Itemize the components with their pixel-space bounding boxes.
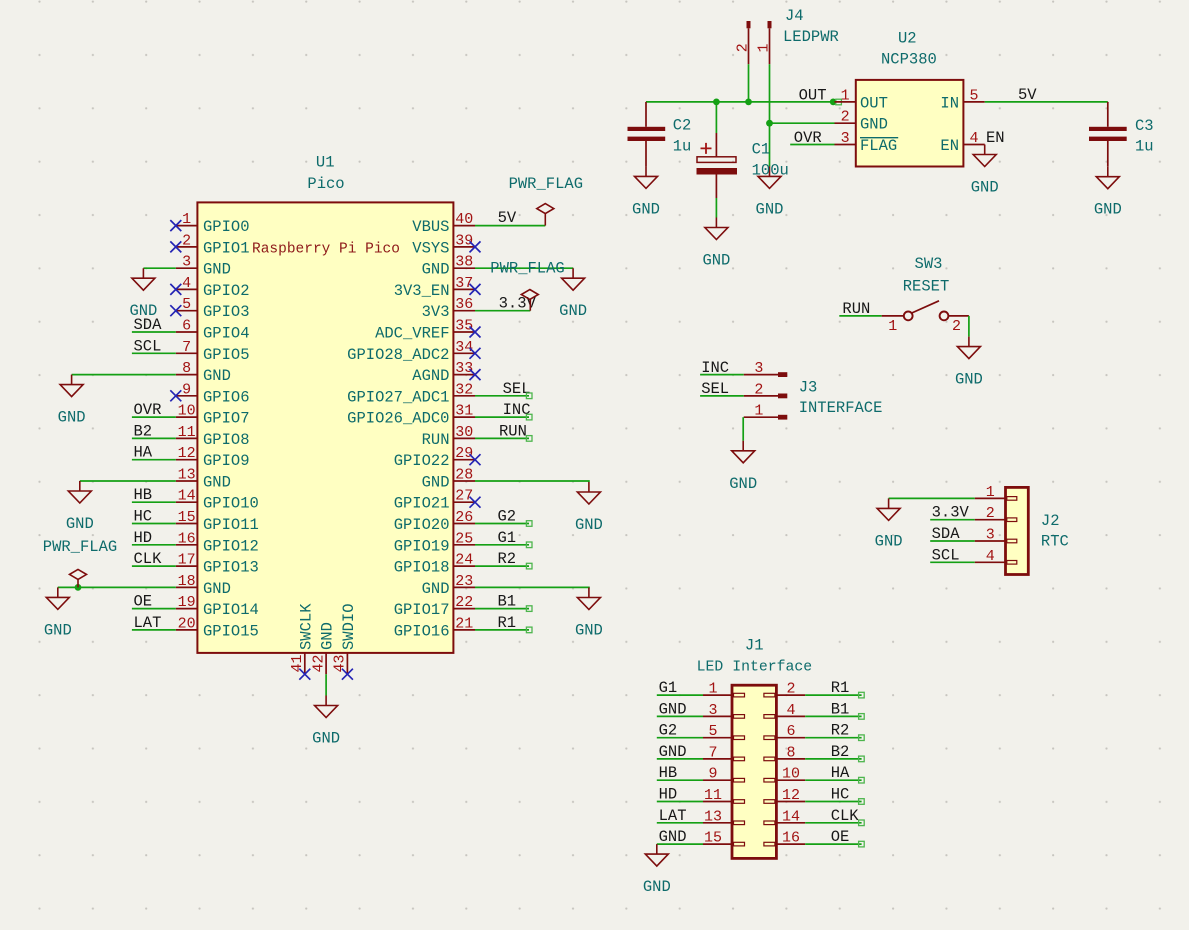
svg-text:HB: HB — [134, 486, 153, 504]
svg-text:GND: GND — [203, 580, 231, 598]
dangling end B2 — [859, 756, 865, 762]
wire U1 pin 13 to ground — [80, 480, 176, 482]
wire net LAT to U1 pin 20 — [132, 629, 176, 631]
svg-text:5V: 5V — [1018, 86, 1037, 104]
ground at J2 pin 1 — [875, 498, 903, 550]
wire U1 pin 38 GND to ground — [475, 267, 573, 269]
wire net INC to J3 pin 3 — [700, 374, 744, 376]
svg-text:35: 35 — [455, 318, 473, 335]
U1 pin 15 (GPIO11) — [176, 509, 259, 534]
svg-text:CLK: CLK — [831, 807, 860, 825]
U1 pin 10 (GPIO7) — [176, 403, 250, 428]
svg-text:5: 5 — [182, 296, 191, 313]
svg-text:3: 3 — [841, 130, 850, 147]
svg-text:GND: GND — [319, 622, 337, 650]
svg-text:HA: HA — [831, 764, 850, 782]
svg-text:2: 2 — [841, 109, 850, 126]
svg-text:15: 15 — [704, 830, 722, 847]
U1 pin 38 (GND) — [422, 254, 475, 279]
wire net GND to J1 pin 7 — [657, 758, 703, 760]
svg-text:38: 38 — [455, 254, 473, 271]
svg-text:LEDPWR: LEDPWR — [783, 28, 839, 46]
U1 pin 32 (GPIO27_ADC1) — [347, 381, 475, 406]
svg-text:GND: GND — [203, 261, 231, 279]
svg-text:1: 1 — [708, 681, 717, 698]
U1 pin 26 (GPIO20) — [394, 509, 475, 534]
U1 pin 11 (GPIO8) — [176, 424, 250, 449]
svg-text:G2: G2 — [659, 722, 678, 740]
wire net HC from J1 pin 12 — [805, 801, 861, 803]
svg-text:GPIO11: GPIO11 — [203, 516, 259, 534]
svg-text:GND: GND — [422, 474, 450, 492]
svg-text:10: 10 — [178, 403, 196, 420]
svg-text:EN: EN — [940, 137, 959, 155]
svg-text:15: 15 — [178, 509, 196, 526]
U2 pin 2 (GND) — [835, 109, 888, 134]
svg-text:GND: GND — [643, 878, 671, 896]
wire net G1 from U1 pin 25 — [475, 544, 529, 546]
U1 pin 40 (VBUS) — [412, 211, 475, 236]
ground at SW3 pin 2 — [955, 337, 983, 389]
ground at U1 pin 18 — [44, 587, 72, 639]
svg-text:VBUS: VBUS — [412, 218, 449, 236]
capacitor C2 — [628, 102, 692, 166]
U1 pin 6 (GPIO4) — [176, 318, 250, 343]
U1 pin 7 (GPIO5) — [176, 339, 250, 364]
wire net B1 from J1 pin 4 — [805, 715, 861, 717]
power flag on U1 pin 18 net — [43, 538, 117, 587]
J1 pin 7 — [703, 744, 745, 761]
J1 pin 16 — [764, 830, 805, 847]
svg-text:IN: IN — [940, 94, 959, 112]
U2 pin 3 (FLAG) — [835, 130, 899, 155]
svg-text:29: 29 — [455, 445, 473, 462]
svg-text:4: 4 — [969, 130, 978, 147]
svg-text:GPIO12: GPIO12 — [203, 537, 259, 555]
svg-text:HD: HD — [659, 786, 678, 804]
svg-text:12: 12 — [178, 445, 196, 462]
U1 pin 17 (GPIO13) — [176, 552, 259, 577]
svg-text:INTERFACE: INTERFACE — [799, 399, 883, 417]
svg-text:Pico: Pico — [307, 175, 344, 193]
svg-text:GPIO8: GPIO8 — [203, 431, 250, 449]
svg-text:GND: GND — [1094, 201, 1122, 219]
svg-text:6: 6 — [182, 318, 191, 335]
svg-text:RESET: RESET — [903, 277, 950, 295]
connector J1 body — [732, 685, 776, 858]
dangling end RUN — [526, 436, 532, 442]
wire net B2 to U1 pin 11 — [132, 437, 176, 439]
svg-text:GND: GND — [659, 743, 687, 761]
svg-text:HC: HC — [831, 786, 850, 804]
U1 pin 24 (GPIO18) — [394, 552, 475, 577]
J1 pin 13 — [703, 808, 745, 825]
J1 pin 5 — [703, 723, 745, 740]
J1 pin 8 — [764, 744, 805, 761]
svg-text:OUT: OUT — [799, 86, 827, 104]
IC U1 Pico body — [197, 202, 453, 653]
ground at U2 EN pin — [971, 145, 999, 197]
J2 pin 2 — [975, 505, 1017, 522]
wire main 5V_LED net — [646, 101, 835, 103]
svg-text:GPIO26_ADC0: GPIO26_ADC0 — [347, 410, 449, 428]
svg-text:U2: U2 — [898, 29, 917, 47]
wire C1 bottom to ground — [715, 198, 717, 218]
svg-text:NCP380: NCP380 — [881, 51, 937, 69]
wire net G2 from U1 pin 26 — [475, 523, 529, 525]
svg-text:EN: EN — [986, 129, 1005, 147]
svg-text:14: 14 — [178, 488, 196, 505]
U1 pin 36 (3V3) — [422, 296, 475, 321]
svg-text:RTC: RTC — [1041, 532, 1069, 550]
svg-text:R1: R1 — [831, 679, 850, 697]
svg-text:GPIO3: GPIO3 — [203, 303, 250, 321]
wire to U2 GND pin — [770, 122, 835, 124]
wire net SEL from U1 pin 32 — [475, 395, 529, 397]
wire net RUN from U1 pin 30 — [475, 437, 529, 439]
svg-text:GND: GND — [422, 261, 450, 279]
U1 pin 27 (GPIO21) — [394, 488, 475, 513]
svg-text:G1: G1 — [498, 529, 517, 547]
svg-text:28: 28 — [455, 467, 473, 484]
dangling end CLK — [859, 820, 865, 826]
svg-text:G1: G1 — [659, 679, 678, 697]
wire net SDA to U1 pin 6 — [132, 331, 176, 333]
svg-text:C3: C3 — [1135, 117, 1154, 135]
svg-text:1u: 1u — [1135, 137, 1154, 155]
no-connect U1 pin 1 — [170, 220, 181, 231]
svg-text:CLK: CLK — [134, 550, 163, 568]
svg-text:LAT: LAT — [134, 614, 162, 632]
no-connect U1 bottom pin — [299, 669, 310, 680]
svg-text:SCL: SCL — [932, 546, 960, 564]
svg-text:7: 7 — [708, 744, 717, 761]
wire net CLK from J1 pin 14 — [805, 822, 861, 824]
U1 pin 13 (GND) — [176, 467, 231, 492]
dangling end INC — [526, 414, 532, 420]
wire SW3 pin 2 to ground — [968, 316, 970, 337]
J1 pin 11 — [703, 787, 745, 804]
svg-text:AGND: AGND — [412, 367, 449, 385]
svg-text:SWDIO: SWDIO — [340, 603, 358, 650]
svg-text:FLAG: FLAG — [860, 137, 897, 155]
ground at U1 pin 28 — [575, 482, 603, 534]
svg-text:33: 33 — [455, 360, 473, 377]
wire junction to C1 — [715, 102, 717, 133]
svg-text:C1: C1 — [752, 141, 771, 159]
svg-text:GND: GND — [955, 371, 983, 389]
svg-text:GPIO7: GPIO7 — [203, 410, 250, 428]
svg-text:100u: 100u — [752, 162, 789, 180]
svg-text:21: 21 — [455, 615, 473, 632]
svg-text:GPIO9: GPIO9 — [203, 452, 250, 470]
wire J4 pin 2 down to 5V_LED net — [748, 64, 750, 102]
wire 5V from U1 pin 40 — [475, 225, 545, 227]
no-connect U1 pin 5 — [170, 305, 181, 316]
svg-text:20: 20 — [178, 615, 196, 632]
svg-text:HB: HB — [659, 764, 678, 782]
wire U1 pin 18 to ground — [58, 586, 176, 588]
wire net HB to U1 pin 14 — [132, 501, 176, 503]
no-connect U1 pin 2 — [170, 241, 181, 252]
no-connect U1 pin 35 — [470, 327, 481, 338]
svg-text:37: 37 — [455, 275, 473, 292]
svg-text:24: 24 — [455, 552, 473, 569]
connector J4 pin 1 — [756, 21, 773, 64]
svg-text:OE: OE — [831, 828, 850, 846]
wire OVR to U2 FLAG pin — [790, 144, 834, 146]
svg-text:GPIO2: GPIO2 — [203, 282, 250, 300]
svg-text:1u: 1u — [673, 138, 692, 156]
svg-text:25: 25 — [455, 530, 473, 547]
wire net SDA to J2 pin 3 — [930, 540, 975, 542]
svg-text:GPIO5: GPIO5 — [203, 346, 250, 364]
power flag PWR_FLAG on VBUS — [509, 175, 583, 226]
wire U1 pin 3 to ground — [143, 267, 175, 269]
svg-text:11: 11 — [178, 424, 196, 441]
ground at U1 pin 23 — [575, 588, 603, 640]
svg-text:7: 7 — [182, 339, 191, 356]
U1 pin 29 (GPIO22) — [394, 445, 475, 470]
capacitor C3 — [1089, 102, 1154, 167]
ground below C1 — [702, 218, 730, 270]
svg-text:B1: B1 — [498, 593, 517, 611]
wire net HA from J1 pin 10 — [805, 779, 861, 781]
svg-text:B2: B2 — [831, 743, 850, 761]
svg-text:GPIO17: GPIO17 — [394, 601, 450, 619]
svg-text:27: 27 — [455, 488, 473, 505]
svg-text:9: 9 — [708, 766, 717, 783]
svg-text:1: 1 — [888, 318, 897, 335]
svg-text:B2: B2 — [134, 422, 153, 440]
wire 3.3V from U1 pin 36 — [475, 310, 530, 312]
svg-text:2: 2 — [952, 318, 961, 335]
U1 pin 28 (GND) — [422, 467, 475, 492]
wire net 3.3V to J2 pin 2 — [930, 519, 975, 521]
U1 pin 23 (GND) — [422, 573, 475, 598]
dangling end R1 — [526, 627, 532, 633]
svg-text:OVR: OVR — [134, 401, 162, 419]
svg-text:4: 4 — [786, 702, 795, 719]
svg-text:8: 8 — [182, 360, 191, 377]
svg-text:GPIO10: GPIO10 — [203, 495, 259, 513]
U1 pin 35 (ADC_VREF) — [375, 318, 475, 343]
svg-text:SCL: SCL — [134, 337, 162, 355]
svg-text:J3: J3 — [799, 378, 818, 396]
wire net HC to U1 pin 15 — [132, 523, 176, 525]
wire net OE to U1 pin 19 — [132, 608, 176, 610]
wire net GND to J1 pin 15 — [657, 843, 703, 845]
wire net R1 from J1 pin 2 — [805, 694, 861, 696]
svg-text:R1: R1 — [498, 614, 517, 632]
svg-text:17: 17 — [178, 552, 196, 569]
wire net R2 from J1 pin 6 — [805, 737, 861, 739]
wire J2 pin 1 to ground — [889, 497, 975, 499]
U2 pin 4 (EN) — [940, 130, 984, 155]
svg-text:GND: GND — [971, 179, 999, 197]
svg-text:2: 2 — [182, 232, 191, 249]
wire J3 pin 1 to ground — [742, 417, 744, 441]
svg-text:GPIO21: GPIO21 — [394, 495, 450, 513]
svg-text:43: 43 — [332, 654, 349, 672]
svg-text:6: 6 — [786, 723, 795, 740]
wire net HD to J1 pin 11 — [657, 801, 703, 803]
svg-text:GND: GND — [875, 532, 903, 550]
U2 pin 1 (OUT) — [835, 87, 888, 112]
wire net R1 from U1 pin 21 — [475, 629, 529, 631]
U1 pin 25 (GPIO19) — [394, 530, 475, 555]
ground below C2 — [632, 166, 660, 218]
U1 pin 2 (GPIO1) — [176, 232, 250, 257]
svg-text:GND: GND — [575, 622, 603, 640]
no-connect U1 pin 9 — [170, 390, 181, 401]
svg-text:22: 22 — [455, 594, 473, 611]
svg-text:RUN: RUN — [499, 422, 527, 440]
svg-text:GND: GND — [44, 621, 72, 639]
svg-text:GPIO20: GPIO20 — [394, 516, 450, 534]
J1 pin 1 — [703, 681, 745, 698]
wire RUN to SW3 pin 1 — [839, 315, 881, 317]
connector J4 pin 2 — [735, 21, 752, 64]
no-connect U1 pin 27 — [470, 497, 481, 508]
svg-text:LED Interface: LED Interface — [697, 659, 812, 675]
J1 pin 9 — [703, 766, 745, 783]
dangling end OE — [859, 841, 865, 847]
U1 pin 16 (GPIO12) — [176, 530, 259, 555]
svg-text:LAT: LAT — [659, 807, 687, 825]
svg-text:GND: GND — [203, 474, 231, 492]
svg-text:OUT: OUT — [860, 94, 888, 112]
dangling end SEL — [526, 393, 532, 399]
svg-text:2: 2 — [786, 681, 795, 698]
svg-text:19: 19 — [178, 594, 196, 611]
svg-text:J2: J2 — [1041, 512, 1060, 530]
svg-text:GND: GND — [702, 252, 730, 270]
svg-text:13: 13 — [704, 808, 722, 825]
U1 pin 3 (GND) — [176, 254, 231, 279]
no-connect U1 pin 29 — [470, 454, 481, 465]
ground at U1 pin 38 — [559, 268, 587, 320]
dangling end R2 — [526, 563, 532, 569]
svg-text:GPIO4: GPIO4 — [203, 325, 250, 343]
svg-text:40: 40 — [455, 211, 473, 228]
svg-text:PWR_FLAG: PWR_FLAG — [509, 175, 583, 193]
U1 pin 18 (GND) — [176, 573, 231, 598]
svg-text:GND: GND — [129, 302, 157, 320]
U1 pin 5 (GPIO3) — [176, 296, 250, 321]
U1 pin 41 (SWCLK) — [289, 603, 315, 674]
wire U1 pin 42 to ground — [325, 674, 327, 695]
J1 pin 3 — [703, 702, 745, 719]
U1 pin 34 (GPIO28_ADC2) — [347, 339, 475, 364]
svg-text:GPIO27_ADC1: GPIO27_ADC1 — [347, 388, 449, 406]
svg-text:GND: GND — [860, 116, 888, 134]
svg-text:VSYS: VSYS — [412, 239, 449, 257]
svg-text:GPIO1: GPIO1 — [203, 239, 250, 257]
dangling end R2 — [859, 735, 865, 741]
wire net HB to J1 pin 9 — [657, 779, 703, 781]
dangling end at OUT — [836, 99, 842, 105]
svg-text:OVR: OVR — [794, 129, 822, 147]
svg-text:14: 14 — [782, 808, 800, 825]
U2 pin 5 (IN) — [940, 87, 984, 112]
svg-text:SDA: SDA — [932, 525, 961, 543]
svg-text:10: 10 — [782, 766, 800, 783]
wire J4 pin 1 down to ground — [769, 64, 771, 166]
svg-text:30: 30 — [455, 424, 473, 441]
junction U2 OUT — [830, 99, 837, 106]
svg-text:3: 3 — [182, 254, 191, 271]
svg-text:C2: C2 — [673, 117, 692, 135]
svg-text:41: 41 — [289, 654, 306, 672]
dangling end B1 — [859, 714, 865, 720]
svg-text:SWCLK: SWCLK — [297, 603, 315, 650]
no-connect U1 pin 39 — [470, 241, 481, 252]
wire net SCL to J2 pin 4 — [930, 561, 975, 563]
svg-text:GND: GND — [66, 515, 94, 533]
junction C1 top — [713, 99, 720, 106]
svg-text:GND: GND — [659, 828, 687, 846]
connector J3 pin 3 — [744, 360, 788, 377]
svg-text:8: 8 — [786, 744, 795, 761]
svg-text:U1: U1 — [316, 153, 335, 171]
svg-text:GPIO0: GPIO0 — [203, 218, 250, 236]
wire net GND to J1 pin 3 — [657, 715, 703, 717]
ground at U1 pin 8 — [58, 375, 86, 427]
U1 pin 4 (GPIO2) — [176, 275, 250, 300]
junction U2 GND net — [766, 120, 773, 127]
svg-text:9: 9 — [182, 381, 191, 398]
U1 pin 22 (GPIO17) — [394, 594, 475, 619]
dangling end B1 — [526, 606, 532, 612]
svg-text:GPIO16: GPIO16 — [394, 622, 450, 640]
junction at PWR_FLAG on pin 18 net — [75, 584, 82, 591]
svg-text:GPIO14: GPIO14 — [203, 601, 259, 619]
svg-text:OE: OE — [134, 593, 153, 611]
J1 pin 14 — [764, 808, 805, 825]
capacitor C1 (polarized) — [697, 133, 789, 198]
no-connect U1 bottom pin — [342, 669, 353, 680]
J1 pin 10 — [764, 766, 805, 783]
svg-text:34: 34 — [455, 339, 473, 356]
wire net SCL to U1 pin 7 — [132, 352, 176, 354]
svg-text:13: 13 — [178, 467, 196, 484]
J2 pin 1 — [975, 484, 1017, 501]
svg-text:PWR_FLAG: PWR_FLAG — [43, 538, 117, 556]
wire net CLK to U1 pin 17 — [132, 565, 176, 567]
U1 pin 33 (AGND) — [412, 360, 475, 385]
svg-text:5: 5 — [969, 87, 978, 104]
svg-text:1: 1 — [756, 43, 773, 52]
U1 pin 30 (RUN) — [422, 424, 475, 449]
svg-text:GND: GND — [756, 200, 784, 218]
J1 pin 12 — [764, 787, 805, 804]
svg-text:1: 1 — [841, 87, 850, 104]
junction J4 pin 2 — [745, 99, 752, 106]
svg-text:1: 1 — [986, 484, 995, 501]
svg-text:16: 16 — [782, 830, 800, 847]
connector J2 body — [1006, 487, 1029, 574]
svg-text:INC: INC — [701, 359, 729, 377]
dangling end R1 — [859, 692, 865, 698]
ground below J4 pin 1 — [756, 166, 784, 218]
svg-text:Raspberry Pi Pico: Raspberry Pi Pico — [252, 241, 400, 257]
svg-text:GND: GND — [58, 409, 86, 427]
svg-text:5V: 5V — [498, 209, 517, 227]
J1 pin 2 — [764, 681, 805, 698]
wire net R2 from U1 pin 24 — [475, 565, 529, 567]
U1 pin 9 (GPIO6) — [176, 381, 250, 406]
